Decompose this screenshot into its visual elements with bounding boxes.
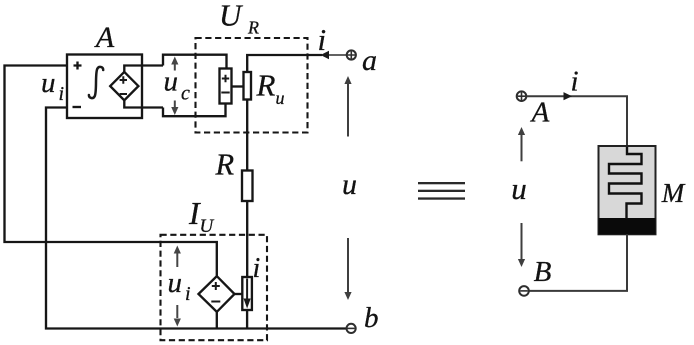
svg-text:A: A xyxy=(94,21,115,54)
wire: arrow to terminal a (gray) xyxy=(329,54,347,56)
wire: U1 bottom to u_c bottom rail xyxy=(124,100,163,108)
svg-text:c: c xyxy=(181,83,190,105)
arrow: u down arrow (left circuit) xyxy=(347,238,349,292)
dashed box I_U xyxy=(161,235,268,340)
svg-text:B: B xyxy=(534,256,552,288)
svg-text:u: u xyxy=(164,66,179,98)
memristor M meander element xyxy=(609,147,642,219)
controlled source U2 (diamond in I_U box) xyxy=(199,276,235,312)
svg-text:u: u xyxy=(342,168,357,201)
svg-text:b: b xyxy=(364,302,379,334)
wire W1: feedback from block A "+" input, left side down to I_U box, to controlled source top xyxy=(5,66,217,277)
arrow: u_i up arrow (I_U box) xyxy=(176,253,178,267)
U1 minus mark xyxy=(120,93,127,95)
controlled voltage source S1 (rect with +/- in U_R box) xyxy=(220,69,232,104)
memristor M (body) xyxy=(599,146,656,234)
svg-text:a: a xyxy=(362,44,377,77)
wire: u_c bottom jog to source S1 bottom xyxy=(163,104,226,117)
wire: U2 bottom to bottom rail xyxy=(216,312,218,329)
svg-text:i: i xyxy=(59,83,65,105)
svg-text:R: R xyxy=(247,18,259,38)
current sensor X1 (rect with down arrow, I_U box) xyxy=(242,277,252,310)
integrator symbol inside block A xyxy=(89,67,103,98)
pin +: block A non-inverting input marker xyxy=(74,62,82,70)
controlled source U1 (diamond inside block A) xyxy=(110,72,138,100)
arrow: u_c down arrow xyxy=(174,101,176,108)
arrow: current i (right circuit) xyxy=(564,92,573,100)
wire: terminal A to memristor top xyxy=(527,96,628,146)
S1 plus mark xyxy=(222,75,229,82)
arrow: u up arrow (right circuit) xyxy=(521,135,523,161)
svg-text:u: u xyxy=(511,171,527,206)
wire: Ru top to terminal a rail xyxy=(247,55,322,72)
U2 minus mark xyxy=(211,301,220,303)
dashed box U_R xyxy=(196,38,308,133)
svg-text:i: i xyxy=(571,66,579,98)
pin -: block A inverting input marker xyxy=(73,106,82,108)
resistor Ru xyxy=(244,72,252,100)
terminal A (circle with plus, right circuit) xyxy=(517,91,527,101)
U1 plus mark xyxy=(120,76,127,83)
svg-text:u: u xyxy=(276,88,285,108)
svg-text:u: u xyxy=(41,67,56,99)
wire: memristor bottom to terminal B xyxy=(529,234,627,291)
block A (integrator with controlled source) xyxy=(67,55,142,119)
arrow: u_c up arrow xyxy=(174,64,176,71)
wire: Ru bottom down to resistor R xyxy=(246,100,248,171)
S1 minus mark xyxy=(221,92,229,94)
svg-text:U: U xyxy=(200,216,215,237)
resistor R xyxy=(242,171,253,202)
arrow: current i into circuit (left-pointing) xyxy=(321,51,330,59)
arrow: u down arrow (right circuit) xyxy=(521,223,523,259)
wire: U1 top to u_c top rail xyxy=(124,66,163,73)
wire: X1 bottom to bottom rail xyxy=(246,310,248,329)
wire W2: feedback from block A "-" input, down to bottom rail toward terminal b xyxy=(46,108,347,329)
svg-text:u: u xyxy=(168,267,183,299)
svg-text:i: i xyxy=(185,283,191,305)
terminal b (circle with minus) xyxy=(347,324,356,333)
svg-text:i: i xyxy=(318,22,327,57)
wire: S1 right to Ru left (mid connector) xyxy=(232,85,244,87)
wire: U2 right vertex to current sensor xyxy=(235,293,243,295)
svg-text:A: A xyxy=(530,96,550,128)
equivalence symbol (three bars) xyxy=(418,182,465,184)
arrow: u up arrow (left circuit) xyxy=(347,84,349,137)
wire: R bottom down into I_U box xyxy=(246,201,248,277)
wire: u_c top jog to source S1 top xyxy=(163,55,227,69)
memristor M polarity bar xyxy=(599,218,656,234)
terminal B (circle with minus) xyxy=(519,286,529,296)
arrow: sensed current i inside X1 xyxy=(246,279,248,300)
svg-text:i: i xyxy=(253,253,261,284)
svg-text:R: R xyxy=(256,68,276,103)
svg-text:M: M xyxy=(661,178,686,208)
svg-text:R: R xyxy=(215,148,235,182)
U2 plus mark xyxy=(212,282,220,290)
terminal a (circle with plus) xyxy=(347,50,356,59)
svg-text:U: U xyxy=(219,0,244,33)
arrow: u_i down arrow (I_U box) xyxy=(176,305,178,318)
